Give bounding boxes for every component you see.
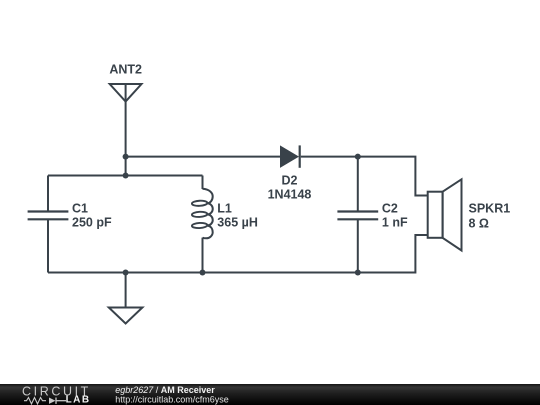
footer bar — [0, 384, 540, 405]
diode D2 label — [282, 174, 298, 188]
svg-text:L1: L1 — [217, 202, 232, 216]
footer title text egbr2627 / AM Receiver — [115, 385, 215, 395]
svg-text:C2: C2 — [382, 202, 398, 216]
diode D2 value label 1N4148 — [268, 188, 312, 202]
speaker SPKR1 — [428, 179, 462, 250]
CircuitLab logo text CIRCUIT — [22, 384, 91, 398]
capacitor C2 label — [382, 202, 398, 216]
capacitor C1 label — [72, 202, 88, 216]
footer url text — [115, 395, 229, 405]
svg-text:ANT2: ANT2 — [109, 63, 142, 77]
svg-text:egbr2627 / AM Receiver: egbr2627 / AM Receiver — [115, 385, 215, 395]
speaker SPKR1 label — [469, 202, 511, 216]
junction C2 top — [355, 154, 361, 160]
svg-text:http://circuitlab.com/cfm6yse: http://circuitlab.com/cfm6yse — [115, 395, 229, 405]
junction ground — [123, 270, 129, 276]
svg-text:1N4148: 1N4148 — [268, 188, 312, 202]
inductor L1 — [192, 176, 213, 273]
speaker SPKR1 value label 8 Ohm — [469, 217, 489, 231]
capacitor C2 value label 1 nF — [382, 216, 408, 230]
svg-text:250 pF: 250 pF — [72, 216, 112, 230]
svg-text:365 µH: 365 µH — [217, 216, 258, 230]
wire top rail left (node to diode anode) — [126, 156, 281, 158]
wire antenna vertical — [125, 102, 127, 176]
antenna ANT2 symbol — [110, 84, 142, 102]
capacitor C2 — [337, 157, 378, 273]
antenna ANT2 label — [109, 63, 142, 77]
svg-text:D2: D2 — [282, 174, 298, 188]
inductor L1 label — [217, 202, 232, 216]
svg-text:LAB: LAB — [66, 394, 91, 405]
wire bottom rail — [48, 235, 428, 273]
junction L1 bottom — [200, 270, 206, 276]
wire top rail right (diode cathode to speaker) — [301, 157, 428, 196]
svg-text:1 nF: 1 nF — [382, 216, 408, 230]
junction C2 bottom — [355, 270, 361, 276]
junction antenna/top-rail — [123, 154, 129, 160]
junction antenna/mid-rail — [123, 173, 129, 179]
inductor L1 value label 365 uH — [217, 216, 258, 230]
capacitor C1 — [28, 176, 69, 273]
svg-text:SPKR1: SPKR1 — [469, 202, 511, 216]
CircuitLab logo resistor zigzag and diode — [24, 398, 66, 404]
diode D2 — [281, 145, 300, 167]
svg-text:C1: C1 — [72, 202, 88, 216]
capacitor C1 value label 250 pF — [72, 216, 112, 230]
ground — [109, 273, 143, 324]
svg-text:8 Ω: 8 Ω — [469, 217, 489, 231]
CircuitLab logo text LAB — [66, 394, 91, 405]
wire mid rail (C1 top to L1 top) — [48, 175, 203, 177]
